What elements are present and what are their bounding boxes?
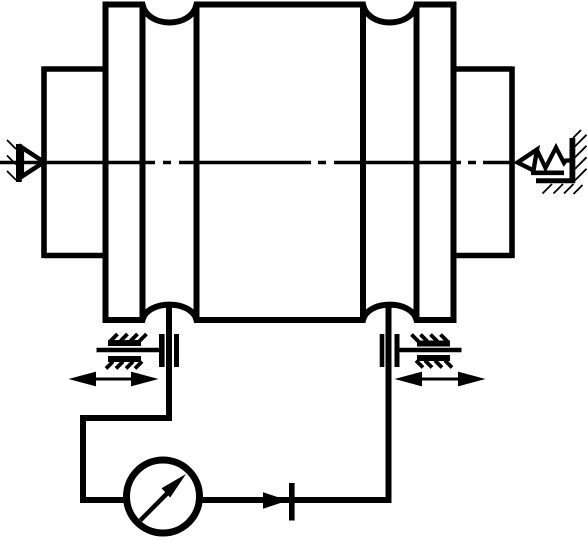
workpiece body outline bbox=[103, 2, 457, 323]
left probe contact plate bbox=[159, 334, 165, 367]
slider plate bbox=[531, 171, 564, 176]
wall hatching bbox=[573, 130, 587, 181]
right probe stem bbox=[398, 348, 462, 353]
bracket hatching bbox=[543, 184, 583, 194]
gauge needle bbox=[140, 493, 168, 521]
right probe guide hatch top bbox=[412, 335, 451, 347]
gauge (dial indicator) bbox=[127, 460, 200, 533]
wall bbox=[570, 138, 576, 183]
left journal bbox=[44, 66, 106, 258]
left probe fixed plate bbox=[174, 334, 179, 367]
body section line central-left bbox=[194, 5, 200, 321]
body section line central-right bbox=[360, 5, 366, 321]
right probe motion arrow bbox=[395, 372, 486, 387]
left probe guide hatch top bbox=[108, 334, 147, 346]
left probe guide hatch bottom bbox=[106, 356, 142, 369]
wire from right notch down bbox=[200, 303, 389, 500]
triangle bbox=[518, 150, 538, 171]
centerline (dash-dot axis) bbox=[0, 161, 512, 164]
wire from left notch to gauge bbox=[83, 303, 169, 500]
right spring-loaded center support bbox=[518, 130, 587, 194]
spring bbox=[537, 148, 572, 169]
signal flow arrow bbox=[263, 492, 288, 508]
left probe motion arrow bbox=[69, 372, 159, 387]
body section line left-collar bbox=[140, 5, 146, 321]
right probe fixed plate bbox=[380, 334, 385, 367]
right probe contact plate bbox=[395, 334, 400, 367]
left fixed center support bbox=[7, 140, 44, 182]
body section line right-collar bbox=[414, 5, 420, 321]
bracket bbox=[536, 178, 575, 183]
right journal bbox=[454, 66, 513, 258]
contact bar bbox=[289, 483, 295, 521]
left probe stem bbox=[97, 348, 162, 353]
right probe guide hatch bottom bbox=[416, 355, 452, 368]
